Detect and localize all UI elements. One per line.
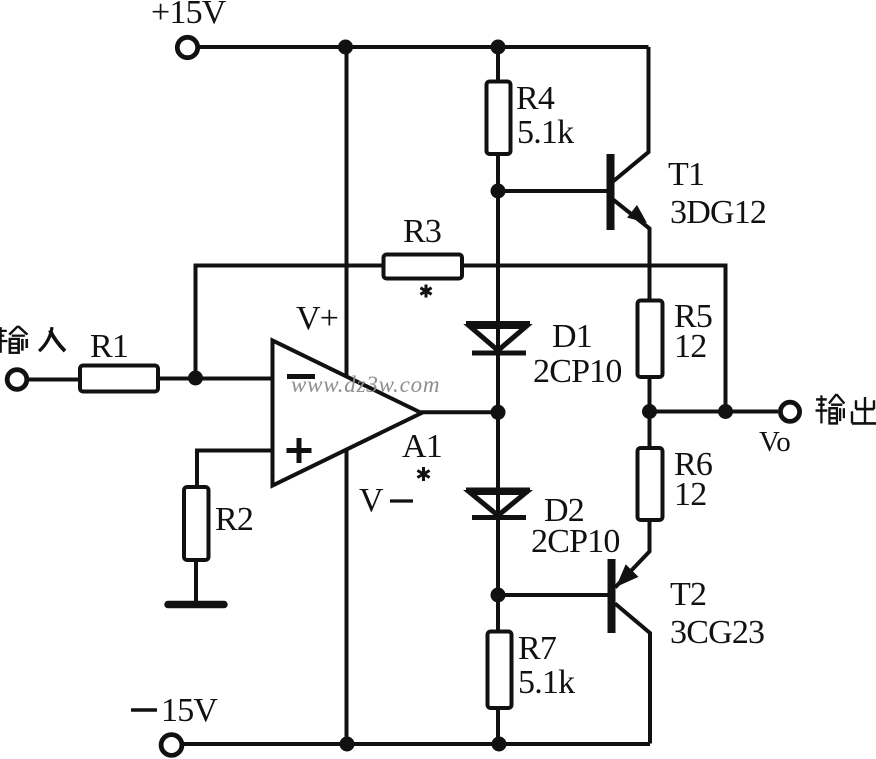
svg-text:A1: A1 xyxy=(402,428,442,465)
svg-text:R1: R1 xyxy=(90,328,128,365)
svg-text:R7: R7 xyxy=(518,630,557,667)
svg-text:V: V xyxy=(359,482,384,519)
svg-text:R4: R4 xyxy=(516,80,555,117)
svg-text:5.1k: 5.1k xyxy=(518,664,575,701)
svg-text:www.dz3w.com: www.dz3w.com xyxy=(291,372,440,397)
svg-text:D1: D1 xyxy=(552,318,592,355)
svg-text:5.1k: 5.1k xyxy=(517,114,574,151)
svg-text:T1: T1 xyxy=(668,156,704,193)
svg-text:Vo: Vo xyxy=(759,426,791,458)
svg-text:2CP10: 2CP10 xyxy=(531,523,620,560)
svg-text:12: 12 xyxy=(674,328,706,365)
svg-text:12: 12 xyxy=(674,476,706,513)
svg-text:15V: 15V xyxy=(161,692,218,729)
svg-text:R2: R2 xyxy=(215,501,253,538)
svg-text:V+: V+ xyxy=(296,300,338,337)
svg-text:3DG12: 3DG12 xyxy=(670,194,766,231)
svg-text:T2: T2 xyxy=(670,576,706,613)
svg-text:R3: R3 xyxy=(403,213,441,250)
svg-text:2CP10: 2CP10 xyxy=(533,353,622,390)
svg-text:+15V: +15V xyxy=(151,0,227,31)
svg-text:3CG23: 3CG23 xyxy=(670,614,764,651)
